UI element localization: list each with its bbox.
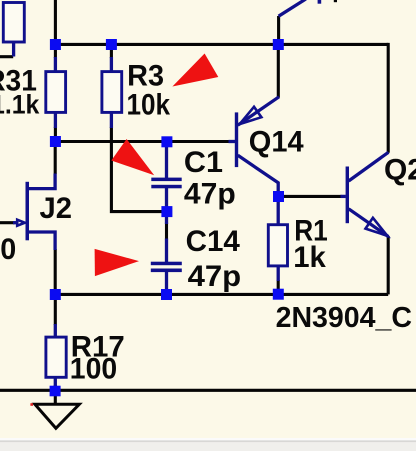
svg-text:10k: 10k bbox=[127, 88, 171, 121]
svg-text:100: 100 bbox=[70, 352, 117, 385]
svg-text:J2: J2 bbox=[40, 192, 72, 225]
svg-text:2N3904_C: 2N3904_C bbox=[276, 302, 412, 334]
svg-text:0: 0 bbox=[0, 233, 16, 266]
svg-text:1k: 1k bbox=[293, 241, 326, 274]
svg-text:47p: 47p bbox=[188, 260, 242, 293]
svg-text:1.1k: 1.1k bbox=[0, 90, 40, 120]
svg-text:Q14: Q14 bbox=[249, 125, 304, 158]
svg-text:Q2: Q2 bbox=[384, 154, 416, 187]
svg-text:47p: 47p bbox=[184, 178, 236, 211]
svg-text:C14: C14 bbox=[186, 225, 241, 258]
svg-text:C1: C1 bbox=[184, 146, 223, 179]
